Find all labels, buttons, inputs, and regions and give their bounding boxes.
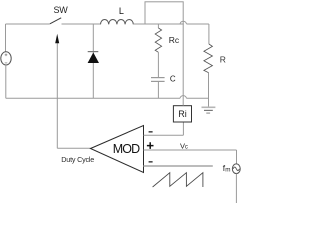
MOD bottom input (-) ramp wire — [144, 161, 213, 166]
diode cathode bar — [88, 51, 99, 53]
plus sign middle input — [147, 142, 154, 149]
Rc zigzag — [155, 28, 161, 52]
wire source top lead — [5, 24, 7, 52]
wire Rc to C — [157, 52, 159, 77]
svg-text:SW: SW — [54, 5, 69, 15]
wire duty vertical — [56, 43, 58, 148]
switch SW — [50, 5, 68, 24]
wire duty horizontal — [57, 147, 90, 149]
wire crossover hop on bottom rail — [180, 96, 187, 99]
duty cycle control wire with arrow — [55, 34, 94, 164]
wire bottom rail left — [6, 97, 180, 99]
sine mark — [233, 167, 239, 170]
MOD triangle body — [91, 126, 144, 173]
wire bottom rail hop to ground node — [187, 97, 209, 99]
ground bar 1 — [202, 106, 216, 108]
inductor winding — [101, 19, 134, 24]
wire top rail hop to output corner — [187, 23, 209, 25]
ground bar 2 — [204, 109, 213, 111]
minus sign bottom input — [149, 161, 153, 162]
ground bar 3 — [206, 112, 210, 114]
modulating source fm — [223, 163, 240, 203]
source circle — [1, 52, 11, 65]
wire top input vertical to Ri — [182, 122, 184, 135]
ground — [202, 107, 216, 113]
load resistor R — [204, 24, 226, 107]
current sense wire (box to Ri) — [182, 24, 184, 106]
svg-text:c: c — [185, 145, 188, 151]
wire ramp input — [144, 165, 213, 167]
wire fm bottom lead — [235, 174, 237, 203]
wire source bottom lead — [5, 65, 7, 98]
svg-text:L: L — [119, 6, 124, 16]
capacitor top plate — [151, 77, 165, 79]
inductor L — [101, 6, 134, 25]
MOD middle input (+) Vc wire — [144, 141, 237, 164]
sense box — [145, 2, 183, 24]
svg-text:R: R — [220, 54, 226, 64]
plus mark — [5, 54, 8, 57]
voltage source Vg — [1, 24, 11, 98]
wire Vc corner down to fm — [236, 150, 238, 164]
wire R top lead — [208, 24, 210, 44]
wire diode branch — [92, 24, 94, 98]
Ri box outline — [173, 106, 191, 122]
wire Vc horizontal — [144, 149, 237, 151]
resistor Rc — [155, 24, 180, 77]
diode D1 — [88, 24, 99, 98]
fm source circle — [232, 164, 240, 174]
svg-text:m: m — [225, 167, 230, 174]
wire crossover hop on top rail — [180, 21, 187, 24]
minus sign top input — [149, 131, 153, 132]
svg-text:C: C — [170, 75, 176, 84]
svg-text:Ri: Ri — [178, 109, 187, 119]
wire top rail left segment — [6, 23, 50, 25]
svg-text:Rc: Rc — [169, 35, 180, 45]
svg-text:Duty Cycle: Duty Cycle — [61, 155, 94, 164]
sawtooth waveform — [153, 173, 203, 187]
switch blade — [50, 18, 61, 24]
capacitor C — [151, 75, 176, 99]
R zigzag — [204, 44, 213, 73]
MOD top input (-) wire to Ri — [144, 122, 184, 135]
capacitor bottom plate — [151, 80, 165, 82]
diode triangle — [88, 53, 99, 64]
wire C bottom lead — [157, 82, 159, 99]
wire top rail switch to inductor — [62, 23, 101, 25]
minus mark — [5, 62, 8, 64]
svg-text:MOD: MOD — [113, 142, 140, 156]
wire R bottom lead — [208, 73, 210, 108]
arrowhead to switch — [55, 34, 59, 43]
resistor Ri box — [173, 106, 191, 122]
wire Rc top stub — [157, 24, 159, 28]
wire top rail inductor to hop — [133, 23, 180, 25]
wire top input horizontal — [144, 134, 184, 136]
modulator MOD — [91, 126, 144, 173]
